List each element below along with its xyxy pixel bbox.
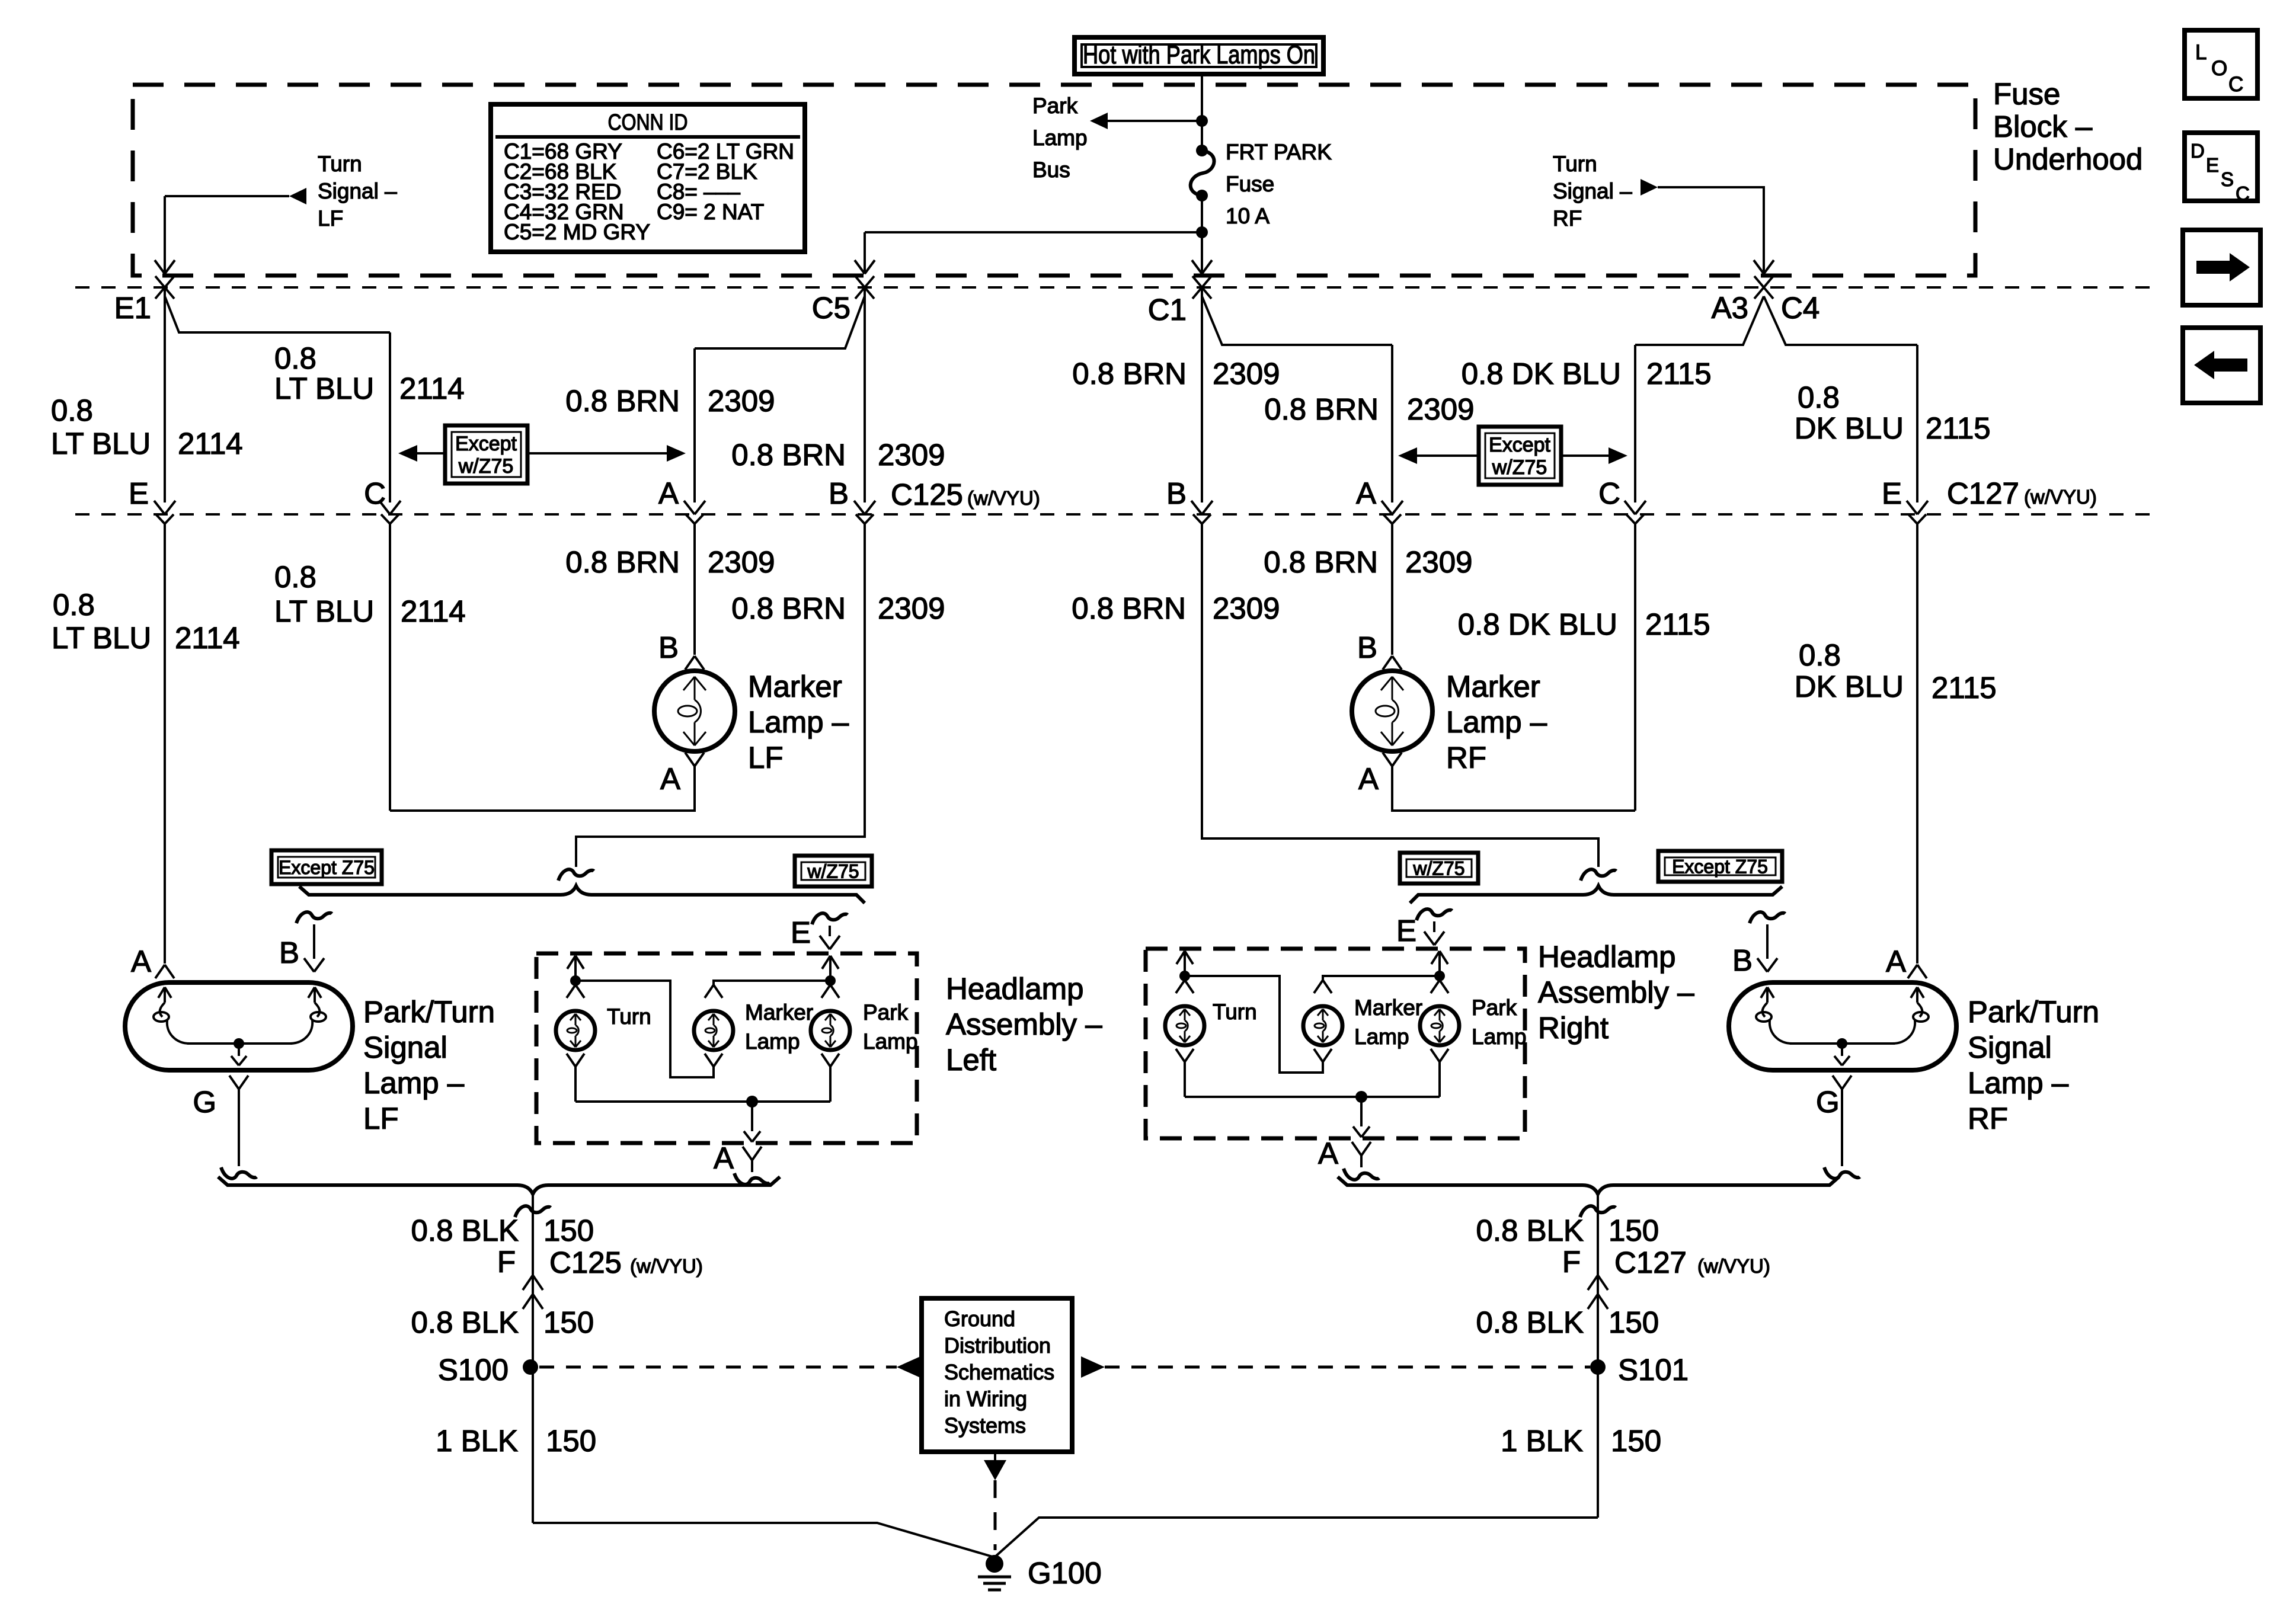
svg-text:LF: LF <box>318 206 343 231</box>
svg-text:w/Z75: w/Z75 <box>1412 858 1464 879</box>
splice S100 <box>523 1359 538 1375</box>
wire turn signal RF feed <box>1658 187 1764 262</box>
icon box LOC <box>2185 30 2257 98</box>
wire DK BLU branch down right <box>1916 345 1918 502</box>
headlamp right bulbs and internal wiring <box>1176 951 1185 964</box>
svg-text:S101: S101 <box>1618 1353 1689 1387</box>
wire ground left to G100 <box>533 1523 994 1557</box>
svg-text:C: C <box>2236 183 2250 204</box>
wire from hot feed down <box>1201 73 1203 148</box>
stub A headlamp LF <box>743 1147 752 1160</box>
stub E headlamp LF <box>812 913 848 924</box>
svg-text:Block –: Block – <box>1993 110 2093 143</box>
arrow turn signal RF <box>1641 179 1658 196</box>
svg-text:in Wiring: in Wiring <box>944 1387 1027 1411</box>
svg-text:D: D <box>2191 140 2205 162</box>
splice curl right feed <box>1581 869 1616 881</box>
wire S101 dashed reference <box>1105 1366 1590 1369</box>
option box w/Z75 right <box>1400 853 1478 884</box>
connector row 1 dashed line <box>75 286 2154 289</box>
svg-text:Except: Except <box>1489 434 1550 456</box>
arrow reference left <box>897 1356 920 1378</box>
svg-text:Assembly –: Assembly – <box>1538 975 1694 1009</box>
wire dashed to G100 <box>994 1480 997 1550</box>
svg-text:Park/Turn: Park/Turn <box>363 995 495 1029</box>
svg-text:2114: 2114 <box>401 594 466 628</box>
arrow except wZ75 right-right <box>1561 454 1609 457</box>
connector F C125 <box>523 1294 533 1309</box>
arrow into C1 <box>1192 260 1202 274</box>
svg-text:2309: 2309 <box>1213 357 1280 391</box>
icon box DESC <box>2185 133 2257 201</box>
svg-text:(w/VYU): (w/VYU) <box>1697 1255 1770 1277</box>
wire G RF down <box>1841 1097 1843 1166</box>
svg-text:C5=2 MD GRY: C5=2 MD GRY <box>504 220 650 244</box>
svg-text:Park: Park <box>863 1000 909 1025</box>
wire E to lamp A LF <box>164 524 166 964</box>
splice curl ground left <box>515 1206 551 1217</box>
svg-text:B: B <box>1166 476 1187 510</box>
svg-text:RF: RF <box>1553 206 1582 231</box>
svg-text:0.8 BRN: 0.8 BRN <box>1072 357 1187 391</box>
svg-text:Lamp –: Lamp – <box>363 1066 465 1100</box>
svg-text:Lamp –: Lamp – <box>1446 705 1547 739</box>
connector C1 <box>1192 276 1202 287</box>
lamp park/turn LF filaments <box>158 987 165 998</box>
connector A C127 <box>1391 501 1393 502</box>
svg-text:Except: Except <box>455 433 517 455</box>
connector B C125 <box>864 501 866 502</box>
lamp park/turn signal RF body <box>1729 982 1956 1070</box>
option box Except w/Z75 left <box>445 425 527 484</box>
wire B C125 down <box>576 524 865 867</box>
svg-text:B: B <box>1732 943 1753 977</box>
icon box arrow left <box>2183 328 2260 403</box>
wire G LF down <box>238 1097 240 1166</box>
svg-text:Turn: Turn <box>607 1004 651 1029</box>
svg-text:Turn: Turn <box>1213 1000 1257 1024</box>
svg-text:A: A <box>131 945 151 978</box>
svg-text:Signal –: Signal – <box>1553 179 1632 203</box>
svg-text:Lamp –: Lamp – <box>748 705 849 739</box>
svg-text:A: A <box>660 762 680 796</box>
svg-text:10 A: 10 A <box>1226 204 1269 228</box>
svg-text:LF: LF <box>748 741 784 774</box>
svg-text:A: A <box>714 1141 734 1175</box>
wire turn signal LF feed <box>165 195 289 197</box>
brace ground gather right <box>1338 1177 1839 1194</box>
svg-text:0.8 BRN: 0.8 BRN <box>565 545 680 579</box>
svg-text:B: B <box>279 936 299 969</box>
svg-text:C: C <box>1598 476 1620 510</box>
svg-text:0.8 BLK: 0.8 BLK <box>411 1305 519 1339</box>
arrow reference right <box>1081 1356 1105 1378</box>
svg-text:LT BLU: LT BLU <box>51 427 151 460</box>
connector A3/C4 <box>1754 276 1764 287</box>
svg-text:0.8 BLK: 0.8 BLK <box>1476 1305 1584 1339</box>
svg-text:1 BLK: 1 BLK <box>1501 1424 1583 1458</box>
svg-text:Bus: Bus <box>1032 158 1070 182</box>
svg-text:Signal –: Signal – <box>318 179 397 203</box>
svg-text:CONN ID: CONN ID <box>608 110 688 135</box>
svg-text:C125: C125 <box>549 1246 622 1279</box>
plug lamp A LF <box>155 965 165 978</box>
connector row 2 dashed line <box>75 513 2154 516</box>
svg-text:0.8: 0.8 <box>274 341 316 375</box>
headlamp left bulbs and internal wiring <box>567 956 575 969</box>
fuse F1 FRT PARK <box>1196 145 1208 156</box>
svg-text:0.8 DK BLU: 0.8 DK BLU <box>1458 607 1617 641</box>
arrow into E1 <box>155 260 165 274</box>
svg-text:w/Z75: w/Z75 <box>458 455 514 478</box>
headlamp assembly left dashed box <box>536 953 917 1143</box>
svg-text:E: E <box>2206 154 2219 176</box>
arrow except wZ75 right-left <box>1417 454 1479 457</box>
svg-text:G: G <box>1816 1085 1840 1119</box>
splice curl G RF <box>1824 1167 1860 1179</box>
splice curl A headlamp LF <box>734 1173 770 1185</box>
box Ground Distribution Schematics <box>922 1298 1072 1452</box>
wire C1 diagonal branch <box>1202 296 1392 345</box>
svg-text:0.8 BRN: 0.8 BRN <box>1264 392 1379 426</box>
svg-text:2309: 2309 <box>708 384 775 418</box>
svg-text:Lamp: Lamp <box>745 1029 800 1054</box>
wire BRN branch down left <box>693 348 696 502</box>
svg-text:B: B <box>829 476 849 510</box>
svg-text:Schematics: Schematics <box>944 1360 1054 1384</box>
svg-text:2115: 2115 <box>1646 357 1712 391</box>
option box w/Z75 left <box>795 856 872 886</box>
plug marker RF B <box>1383 656 1392 670</box>
connector E1 <box>155 276 165 287</box>
svg-text:0.8 BLK: 0.8 BLK <box>1476 1214 1584 1247</box>
svg-text:150: 150 <box>1609 1214 1659 1247</box>
svg-text:C4: C4 <box>1781 291 1819 325</box>
connector A C125 <box>693 501 696 502</box>
svg-text:G100: G100 <box>1028 1556 1102 1590</box>
svg-text:Hot with Park Lamps On: Hot with Park Lamps On <box>1083 40 1315 69</box>
splice curl left feed <box>558 869 594 881</box>
svg-text:Headlamp: Headlamp <box>1538 940 1675 974</box>
wire LT BLU branch down <box>389 332 391 502</box>
plug marker LF A <box>685 753 695 766</box>
svg-text:A3: A3 <box>1712 291 1748 325</box>
connector C C127 <box>1634 501 1636 502</box>
svg-text:LF: LF <box>363 1102 399 1135</box>
svg-text:w/Z75: w/Z75 <box>1492 456 1547 479</box>
wire C4 diagonal branch <box>1764 296 1917 345</box>
svg-text:LT BLU: LT BLU <box>274 372 374 405</box>
svg-text:A: A <box>1358 762 1379 796</box>
svg-text:2309: 2309 <box>1213 591 1280 625</box>
svg-text:Lamp: Lamp <box>863 1029 918 1054</box>
svg-text:Marker: Marker <box>1446 670 1540 703</box>
node park lamp bus junction <box>1196 115 1208 127</box>
svg-text:0.8 BRN: 0.8 BRN <box>565 384 680 418</box>
arrow reference down <box>994 1452 996 1460</box>
connector B C127 <box>1201 501 1203 502</box>
svg-text:RF: RF <box>1968 1102 2008 1135</box>
svg-text:Lamp: Lamp <box>1472 1025 1527 1049</box>
svg-text:A: A <box>1318 1137 1338 1170</box>
wire A3 diagonal branch <box>1635 296 1764 345</box>
svg-text:S100: S100 <box>438 1353 509 1387</box>
svg-text:Marker: Marker <box>1354 996 1422 1020</box>
svg-text:Except Z75: Except Z75 <box>279 857 375 878</box>
svg-text:RF: RF <box>1446 741 1486 774</box>
wire fuse to C1 <box>1201 196 1203 262</box>
svg-text:C5: C5 <box>812 291 850 325</box>
svg-text:Assembly –: Assembly – <box>946 1007 1102 1041</box>
connector E C127 <box>1916 501 1918 502</box>
svg-text:2309: 2309 <box>878 438 945 472</box>
wire BRN branch down right <box>1391 345 1393 502</box>
svg-text:150: 150 <box>546 1424 596 1458</box>
wire E1 vertical <box>164 288 166 502</box>
svg-text:Except Z75: Except Z75 <box>1672 856 1768 878</box>
svg-text:150: 150 <box>1609 1305 1659 1339</box>
svg-text:Marker: Marker <box>748 670 842 703</box>
arrow park lamp bus <box>1090 113 1108 129</box>
wire C1 vertical <box>1201 288 1203 502</box>
svg-text:B: B <box>658 630 679 664</box>
svg-text:(w/VYU): (w/VYU) <box>630 1255 703 1277</box>
svg-text:F: F <box>1562 1245 1581 1279</box>
wire ground left <box>532 1194 534 1523</box>
svg-text:0.8 BRN: 0.8 BRN <box>731 591 846 625</box>
svg-text:E: E <box>791 916 811 949</box>
lamp park/turn RF filaments <box>1761 987 1767 998</box>
brace feed split right <box>1410 886 1782 903</box>
lamp marker LF <box>654 671 735 751</box>
svg-text:Underhood: Underhood <box>1993 142 2142 176</box>
svg-text:2114: 2114 <box>178 427 243 460</box>
wire E1 diagonal branch <box>165 296 390 332</box>
svg-text:Ground: Ground <box>944 1307 1015 1331</box>
svg-text:LT BLU: LT BLU <box>274 594 374 628</box>
headlamp assembly right dashed box <box>1146 949 1525 1138</box>
plug marker RF A <box>1383 753 1392 766</box>
svg-text:2115: 2115 <box>1926 411 1991 445</box>
ground G100 <box>986 1555 1003 1573</box>
connector C C125 <box>389 501 391 502</box>
svg-text:E: E <box>1882 476 1902 510</box>
svg-text:B: B <box>1357 630 1377 664</box>
stub B park/turn LF <box>296 912 332 923</box>
wire DK BLU branch down left <box>1634 345 1636 502</box>
svg-text:0.8 DK BLU: 0.8 DK BLU <box>1462 357 1621 391</box>
svg-text:A: A <box>658 476 679 510</box>
svg-text:Right: Right <box>1538 1011 1609 1045</box>
svg-text:2309: 2309 <box>1405 545 1472 579</box>
svg-text:2309: 2309 <box>878 591 945 625</box>
wire E to lamp A RF <box>1916 524 1918 964</box>
arrow turn signal LF <box>289 188 306 204</box>
brace ground gather left <box>218 1177 780 1194</box>
svg-text:Lamp: Lamp <box>1032 126 1088 150</box>
stub A headlamp RF <box>1352 1142 1361 1156</box>
wire C5 vertical <box>864 288 866 502</box>
svg-text:2114: 2114 <box>399 372 465 405</box>
svg-text:Fuse: Fuse <box>1993 77 2060 111</box>
arrow into C5 <box>855 260 865 274</box>
svg-text:2115: 2115 <box>1645 607 1710 641</box>
svg-text:(w/VYU): (w/VYU) <box>967 487 1040 509</box>
svg-text:2309: 2309 <box>708 545 775 579</box>
svg-text:1 BLK: 1 BLK <box>436 1424 518 1458</box>
svg-text:E: E <box>1396 914 1416 948</box>
svg-text:O: O <box>2211 57 2227 80</box>
svg-text:FRT PARK: FRT PARK <box>1226 140 1332 164</box>
stub B park/turn RF <box>1750 912 1785 923</box>
svg-text:0.8: 0.8 <box>1798 380 1840 414</box>
splice curl A headlamp RF <box>1344 1169 1379 1180</box>
svg-text:Headlamp: Headlamp <box>946 972 1083 1006</box>
svg-text:0.8: 0.8 <box>53 588 95 622</box>
fuse block underhood dashed box <box>133 85 1975 276</box>
connector C5 <box>855 276 865 287</box>
wire park lamp bus <box>1094 120 1202 122</box>
connector F C127 <box>1588 1294 1598 1309</box>
svg-text:0.8 BRN: 0.8 BRN <box>1264 545 1378 579</box>
svg-text:0.8: 0.8 <box>274 560 316 594</box>
connector E C125 <box>164 501 166 502</box>
svg-text:F: F <box>497 1245 516 1279</box>
wire C down <box>389 524 391 811</box>
wire fuse output to C5 branch <box>865 231 1202 233</box>
svg-text:Marker: Marker <box>745 1000 813 1025</box>
svg-text:Park/Turn: Park/Turn <box>1968 995 2099 1029</box>
wire S100 dashed reference <box>539 1366 897 1369</box>
svg-text:Systems: Systems <box>944 1413 1026 1438</box>
svg-text:0.8 BLK: 0.8 BLK <box>411 1214 519 1247</box>
svg-text:(w/VYU): (w/VYU) <box>2024 486 2097 508</box>
svg-text:DK BLU: DK BLU <box>1795 670 1904 703</box>
svg-text:LT BLU: LT BLU <box>52 621 151 655</box>
svg-text:G: G <box>193 1085 216 1119</box>
svg-text:Left: Left <box>946 1043 996 1077</box>
svg-text:C125: C125 <box>891 478 963 511</box>
plug G lamp LF <box>229 1076 239 1089</box>
plug lamp A RF <box>1908 965 1917 978</box>
svg-text:Park: Park <box>1032 94 1078 118</box>
svg-text:Turn: Turn <box>1553 152 1597 176</box>
svg-text:C: C <box>2228 73 2243 96</box>
lamp marker RF <box>1352 671 1432 751</box>
svg-text:C127: C127 <box>1614 1246 1687 1279</box>
svg-text:C127: C127 <box>1947 476 2019 510</box>
svg-text:Lamp –: Lamp – <box>1968 1066 2069 1100</box>
splice curl ground right <box>1580 1206 1616 1217</box>
CONN ID table box <box>491 104 805 252</box>
plug marker LF B <box>685 656 695 670</box>
option box Except Z75 left <box>271 850 382 884</box>
svg-text:Signal: Signal <box>363 1030 447 1064</box>
wire marker LF return <box>390 766 695 811</box>
option box Except w/Z75 right <box>1479 427 1561 485</box>
svg-text:w/Z75: w/Z75 <box>807 861 859 882</box>
svg-text:C1: C1 <box>1148 293 1187 327</box>
svg-text:0.8: 0.8 <box>51 393 93 427</box>
svg-text:0.8 BRN: 0.8 BRN <box>1072 591 1186 625</box>
svg-text:A: A <box>1356 476 1376 510</box>
svg-text:DK BLU: DK BLU <box>1795 411 1904 445</box>
wire marker RF B <box>1391 524 1393 655</box>
plug G lamp RF <box>1833 1076 1842 1089</box>
wire B C127 down <box>1202 524 1598 867</box>
stub E headlamp RF <box>1416 909 1452 920</box>
splice S101 <box>1590 1359 1606 1375</box>
svg-text:E1: E1 <box>114 291 151 325</box>
wire marker RF return <box>1392 766 1635 811</box>
wire turn signal LF drop <box>164 196 166 262</box>
svg-text:Distribution: Distribution <box>944 1333 1051 1358</box>
svg-text:Fuse: Fuse <box>1226 172 1274 196</box>
label box: Hot with Park Lamps On <box>1075 37 1323 74</box>
svg-text:150: 150 <box>1611 1424 1661 1458</box>
svg-text:Signal: Signal <box>1968 1030 2052 1064</box>
svg-text:150: 150 <box>543 1305 594 1339</box>
brace feed split left <box>299 886 865 903</box>
svg-text:2114: 2114 <box>175 621 240 655</box>
svg-text:2309: 2309 <box>1407 392 1474 426</box>
svg-text:150: 150 <box>543 1214 594 1247</box>
svg-text:Lamp: Lamp <box>1354 1025 1409 1049</box>
lamp park/turn signal LF body <box>125 982 353 1070</box>
arrow except wZ75 left-right <box>527 452 667 454</box>
wire ground right to G100 <box>994 1518 1598 1557</box>
svg-text:0.8: 0.8 <box>1799 638 1841 672</box>
wire ground right <box>1597 1194 1599 1518</box>
wire C5 drop <box>864 232 866 262</box>
arrow into A3 <box>1754 260 1764 274</box>
svg-text:L: L <box>2195 41 2207 64</box>
svg-text:C: C <box>364 476 386 510</box>
wire C5 diagonal branch <box>695 296 865 348</box>
svg-text:A: A <box>1886 945 1906 978</box>
svg-text:Park: Park <box>1472 996 1517 1020</box>
wire marker LF B <box>693 524 696 655</box>
svg-text:Turn: Turn <box>318 152 362 176</box>
svg-text:0.8 BRN: 0.8 BRN <box>731 438 846 472</box>
svg-text:E: E <box>129 476 149 510</box>
node fuse output junction <box>1196 226 1208 238</box>
CONN ID separator <box>495 135 800 139</box>
wire C right down <box>1634 524 1636 811</box>
svg-text:S: S <box>2221 168 2234 190</box>
svg-text:C9= 2 NAT: C9= 2 NAT <box>657 200 764 224</box>
svg-text:2115: 2115 <box>1932 671 1997 705</box>
option box Except Z75 right <box>1658 851 1782 882</box>
icon box arrow right <box>2183 230 2260 305</box>
arrow except wZ75 left-left <box>417 452 445 454</box>
splice curl G LF <box>221 1167 257 1179</box>
